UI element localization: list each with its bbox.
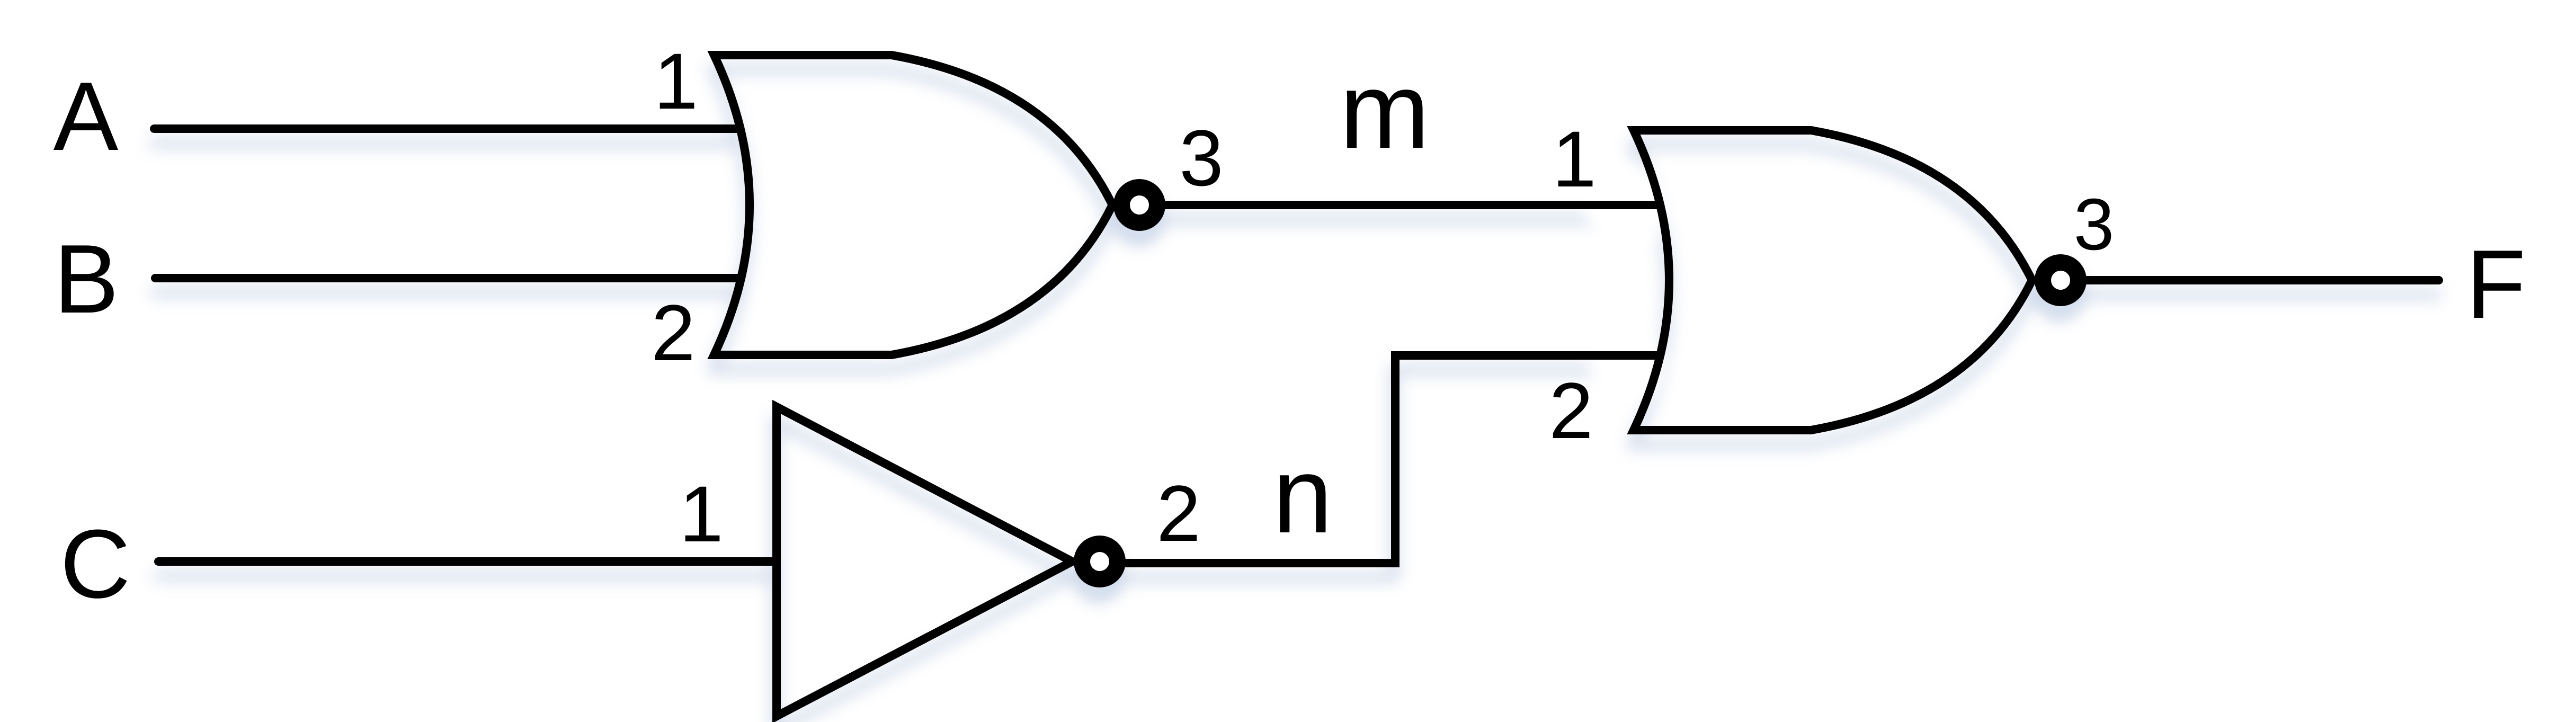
svg-text:1: 1 bbox=[1552, 114, 1596, 203]
bubble U2 output bbox=[1082, 544, 1118, 580]
svg-text:A: A bbox=[54, 61, 119, 171]
svg-text:2: 2 bbox=[1549, 366, 1593, 455]
svg-text:F: F bbox=[2466, 229, 2526, 338]
wire B bbox=[155, 274, 739, 282]
NOR gate U3 body bbox=[1634, 130, 2032, 430]
wire F bbox=[2084, 276, 2439, 284]
NOR gate U1 body bbox=[714, 55, 1112, 355]
svg-text:B: B bbox=[54, 224, 119, 333]
svg-text:3: 3 bbox=[1179, 113, 1223, 202]
node cloud m-end bbox=[1585, 165, 1670, 250]
node cloud n-end bbox=[1589, 327, 1665, 404]
wire C bbox=[158, 557, 774, 566]
svg-text:C: C bbox=[60, 509, 131, 618]
wire n bbox=[1123, 355, 1659, 563]
svg-text:m: m bbox=[1340, 50, 1430, 171]
wire A bbox=[154, 124, 739, 133]
svg-text:3: 3 bbox=[2074, 184, 2115, 265]
svg-text:1: 1 bbox=[654, 37, 698, 126]
svg-text:2: 2 bbox=[1156, 469, 1200, 558]
inverter U2 triangle bbox=[777, 407, 1072, 716]
svg-text:2: 2 bbox=[651, 288, 695, 377]
wire m bbox=[1163, 201, 1659, 209]
svg-text:1: 1 bbox=[679, 469, 723, 558]
bubble U3 output bbox=[2043, 263, 2079, 298]
bubble U1 output bbox=[1122, 188, 1157, 223]
svg-text:n: n bbox=[1272, 435, 1332, 556]
